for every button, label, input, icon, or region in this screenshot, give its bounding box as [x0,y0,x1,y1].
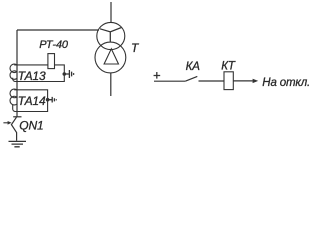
TA13 secondary winding arcs [10,64,17,79]
arrowhead to trip output [253,79,259,83]
transformer T top lead [110,2,112,23]
QN1 actuate arrow [3,122,8,124]
contact KA (normally open) [185,76,197,81]
svg-text:На откл.: На откл. [262,77,309,89]
svg-text:КТ: КТ [221,61,236,73]
ground at QN1 [9,141,27,146]
star (wye) symbol in top winding [100,28,121,42]
wire from KA to relay coil KT [199,80,225,82]
current transformer TA13 loop box [13,65,65,82]
wire from + to contact KA [154,80,185,82]
svg-text:РТ-40: РТ-40 [39,39,69,51]
node junction dot TA14 [46,98,50,102]
svg-text:+: + [153,67,161,82]
wire top horizontal from bus to transformer T [17,29,99,31]
transformer T top winding circle [97,22,125,49]
svg-text:ТА14: ТА14 [18,94,46,108]
ground (earth) symbol of TA14 circuit, pointing right [48,97,57,103]
transformer T bottom winding circle [95,42,126,73]
delta symbol in bottom winding [104,49,118,64]
svg-text:Т: Т [131,41,140,55]
relay coil PT-40 [48,54,55,69]
wire bus vertical (primary circuit) [16,30,18,117]
svg-text:ТА13: ТА13 [18,69,46,83]
relay coil KT [224,72,233,90]
svg-text:КА: КА [186,61,201,73]
svg-text:QN1: QN1 [19,119,43,133]
transformer T bottom lead [110,73,112,96]
ground (earth) symbol of TA13 circuit, pointing right [64,70,73,78]
short-circuiting switch QN1 fixed contact tick [13,116,21,118]
wire from KT to arrow [233,80,253,82]
QN1 blade [11,117,16,141]
TA14 secondary winding arcs [10,89,17,105]
node junction dot TA13 [63,72,67,76]
current transformer TA14 loop box [13,90,48,112]
